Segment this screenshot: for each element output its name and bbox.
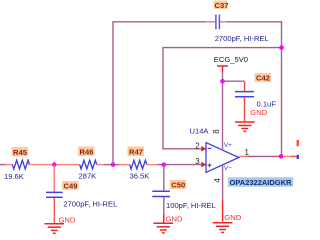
svg-text:R45: R45: [13, 148, 28, 157]
wire R46 to feedback junction: [97, 164, 130, 166]
ground C50: [154, 215, 183, 233]
wire C50 tap: [163, 165, 165, 191]
value OPA2322AIDGKR: [228, 177, 293, 187]
wire C37 to output riser: [227, 21, 283, 23]
svg-text:C50: C50: [171, 181, 185, 190]
junction node feedback tap: [111, 162, 116, 167]
svg-text:GND: GND: [166, 215, 183, 224]
ground C42: [235, 108, 268, 132]
svg-text:C42: C42: [256, 74, 270, 83]
capacitor C50: [152, 191, 170, 222]
capacitor C49: [46, 192, 63, 223]
junction node feedback/output riser: [279, 45, 284, 50]
power ECG_5V0: [214, 55, 248, 73]
svg-text:U14A: U14A: [190, 127, 210, 136]
pin number 1: [245, 148, 250, 157]
wire R47 to op-amp pin 3: [147, 164, 202, 166]
label R47: [128, 147, 145, 157]
junction node C49 tap: [52, 162, 57, 167]
pin 2 arrow: [201, 146, 206, 152]
svg-text:36.5K: 36.5K: [130, 171, 150, 180]
wire op-amp V+ pin: [222, 73, 224, 151]
svg-text:V+: V+: [224, 142, 232, 149]
resistor R46: [80, 160, 97, 169]
label C49: [62, 181, 79, 191]
label R46: [78, 147, 95, 157]
svg-text:287K: 287K: [79, 171, 97, 180]
svg-text:1: 1: [245, 148, 250, 157]
wire R45 to R46: [28, 164, 80, 166]
resistor R45: [12, 160, 29, 169]
value 100pF, HI-REL: [166, 201, 216, 210]
svg-text:OPA2322AIDGKR: OPA2322AIDGKR: [230, 178, 293, 187]
wire op-amp V- pin: [222, 165, 224, 222]
wire input stub left edge: [0, 164, 13, 166]
value 19.6K: [4, 172, 24, 181]
junction node C50 tap: [162, 162, 167, 167]
label C42: [255, 73, 272, 83]
wire feedback riser to C37: [113, 22, 206, 165]
value 287K: [79, 171, 97, 180]
value 36.5K: [130, 171, 150, 180]
svg-text:8: 8: [212, 129, 221, 134]
junction node ECG_5V0: [220, 79, 225, 84]
svg-text:2700pF, HI-REL: 2700pF, HI-REL: [63, 199, 117, 208]
wire C49 tap: [53, 165, 55, 192]
pin number 4: [213, 178, 222, 183]
capacitor C42: [235, 92, 254, 122]
svg-text:C49: C49: [64, 182, 78, 191]
junction node output: [279, 154, 284, 159]
svg-text:C37: C37: [215, 1, 229, 10]
svg-text:GND: GND: [250, 108, 267, 117]
capacitor C37: [206, 15, 227, 30]
svg-text:GND: GND: [224, 213, 241, 222]
op-amp U14A: [206, 142, 239, 172]
pin 3 arrow: [201, 162, 206, 168]
svg-text:19.6K: 19.6K: [4, 172, 24, 181]
wire output: [239, 155, 298, 157]
label C37: [214, 1, 229, 10]
value 2700pF, HI-REL (C49): [63, 199, 117, 208]
svg-text:4: 4: [213, 178, 222, 183]
label C50: [170, 180, 187, 190]
svg-text:2700pF, HI-REL: 2700pF, HI-REL: [215, 34, 269, 43]
svg-text:3: 3: [195, 157, 200, 166]
pin number 2: [195, 141, 200, 150]
svg-text:R46: R46: [80, 147, 94, 156]
pin number 8: [212, 129, 221, 134]
wire output riser: [281, 21, 283, 156]
pin number 3: [195, 157, 200, 166]
wire ECG_5V0 to C42: [223, 81, 245, 91]
ground op-amp V-: [213, 213, 242, 232]
label R45: [12, 147, 29, 157]
svg-text:R47: R47: [129, 147, 143, 156]
svg-text:V−: V−: [224, 165, 232, 172]
resistor R47: [130, 160, 147, 169]
value 0.1uF: [257, 100, 277, 109]
svg-text:100pF, HI-REL: 100pF, HI-REL: [166, 201, 216, 210]
svg-text:ECG_5V0: ECG_5V0: [214, 55, 248, 64]
wire pin2 feedback path: [163, 48, 282, 149]
off-page connector (clipped): [297, 140, 300, 159]
label U14A: [190, 127, 210, 136]
ground C49: [45, 215, 76, 233]
value 2700pF, HI-REL (C37): [215, 34, 269, 43]
svg-text:2: 2: [195, 141, 200, 150]
